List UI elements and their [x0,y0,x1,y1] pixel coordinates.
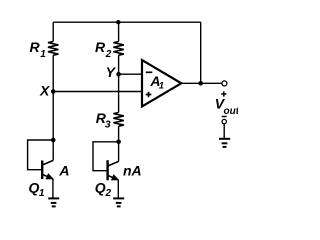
resistor R3 [113,113,123,127]
Q2 base-collector tie junction dot [116,140,121,145]
wire R3 bottom to Q2 collector junction [118,126,120,142]
svg-text:X: X [39,82,51,98]
wire R2 top lead [118,22,120,41]
svg-text:1: 1 [159,80,164,91]
output negative terminal circle [222,119,226,123]
resistor R2 [113,42,123,56]
output terminal circle [222,81,227,86]
svg-text:Q: Q [95,180,106,196]
wire node X to op-amp non-inverting input [53,91,142,93]
svg-text:Q: Q [29,180,40,196]
label X [39,82,51,98]
svg-text:out: out [224,106,239,117]
resistor R1 [48,42,58,56]
wire Q2 base loop [93,142,119,171]
wire R2 bottom to node Y [118,55,120,74]
svg-text:A: A [58,163,69,179]
node X junction dot [51,89,56,94]
label R2 [95,39,112,60]
wire Y to op-amp inverting input [119,73,142,75]
wire op-amp output [181,82,222,84]
ground (Q2) [113,198,124,206]
wire X down to Q1 collector [52,92,54,161]
output node junction dot [198,81,203,86]
label Q2 [95,180,112,199]
junction top rail / R2 [116,20,120,24]
label Q1 [29,180,45,199]
ground (Q1) [48,198,59,206]
node Y junction dot [116,72,121,77]
label R1 [30,39,47,60]
transistor Q1 [42,160,53,179]
wire R1 top lead [52,22,54,41]
op-amp U1 body [142,60,181,107]
wire right vertical (feedback to output node) [200,22,202,83]
op-amp non-inverting input marker [146,92,152,98]
svg-text:1: 1 [40,49,46,60]
wire R3/junction down to Q2 collector [118,142,120,162]
ground (output) [219,139,230,147]
svg-text:Y: Y [106,64,117,80]
transistor Q2 [108,160,119,180]
svg-text:3: 3 [105,120,111,131]
svg-text:2: 2 [105,49,112,60]
label R3 [96,110,111,131]
label - (output negative polarity) [222,116,227,118]
svg-text:R: R [30,39,41,55]
wire Q2 emitter to ground [117,180,119,198]
op-amp inverting input marker [146,71,153,73]
svg-text:nA: nA [123,163,142,179]
label A1 (op-amp gain) [149,73,164,91]
svg-text:2: 2 [105,188,112,199]
label + (output polarity) [221,91,226,96]
wire negative terminal to ground [223,124,225,138]
svg-text:R: R [95,39,106,55]
label nA (emitter area of Q2) [123,163,142,179]
wire Q1 base loop [28,140,54,170]
wire R1 bottom to node X [52,55,54,91]
label A (emitter area of Q1) [58,163,69,179]
wire Q1 emitter to ground [52,179,54,198]
wire Y down through X rail to R3 (crossover, no connection) [118,74,120,112]
label Vout [215,96,240,117]
wire top rail [53,21,201,23]
label Y [106,64,117,80]
svg-text:1: 1 [39,188,45,199]
Q1 base-collector tie junction dot [51,138,56,143]
